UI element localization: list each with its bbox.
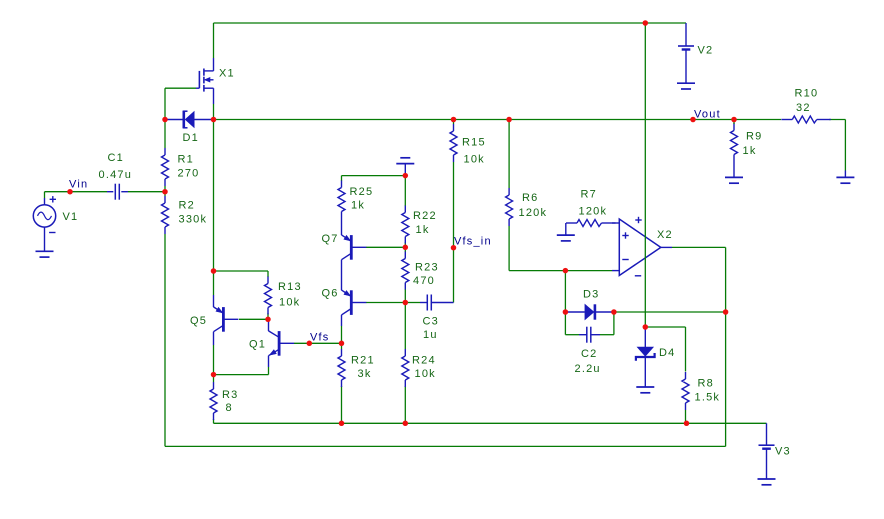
svg-text:C2: C2 (581, 348, 597, 360)
svg-text:R21: R21 (351, 355, 375, 367)
svg-text:R8: R8 (698, 378, 714, 390)
svg-text:R13: R13 (278, 281, 302, 293)
svg-text:1k: 1k (743, 145, 757, 157)
svg-text:Q5: Q5 (190, 315, 207, 327)
svg-text:D1: D1 (183, 132, 199, 144)
svg-text:Vin: Vin (69, 179, 88, 191)
svg-text:R7: R7 (581, 189, 597, 201)
svg-text:X1: X1 (219, 68, 235, 80)
svg-text:470: 470 (413, 275, 435, 287)
svg-text:10k: 10k (415, 368, 436, 380)
svg-text:Vout: Vout (694, 109, 721, 121)
svg-text:V1: V1 (63, 211, 79, 223)
svg-text:V3: V3 (775, 446, 791, 458)
svg-text:0.47u: 0.47u (99, 169, 133, 181)
svg-text:R1: R1 (178, 154, 194, 166)
svg-text:R2: R2 (179, 200, 195, 212)
svg-text:V2: V2 (698, 45, 714, 57)
svg-text:2.2u: 2.2u (575, 363, 601, 375)
svg-text:10k: 10k (279, 297, 300, 309)
svg-text:R3: R3 (222, 389, 238, 401)
svg-text:Q7: Q7 (322, 233, 339, 245)
svg-text:Q1: Q1 (249, 339, 266, 351)
svg-text:32: 32 (796, 102, 811, 114)
svg-text:R9: R9 (746, 131, 762, 143)
svg-text:1k: 1k (351, 200, 365, 212)
svg-text:X2: X2 (657, 229, 673, 241)
svg-text:270: 270 (178, 168, 200, 180)
svg-text:120k: 120k (579, 206, 608, 218)
svg-text:R10: R10 (795, 88, 819, 100)
svg-text:120k: 120k (519, 207, 548, 219)
svg-text:1.5k: 1.5k (695, 392, 721, 404)
svg-text:R25: R25 (350, 186, 374, 198)
svg-text:1u: 1u (423, 329, 438, 341)
svg-text:C3: C3 (423, 316, 439, 328)
svg-text:330k: 330k (179, 214, 208, 226)
svg-text:D4: D4 (659, 347, 675, 359)
svg-text:Vfs: Vfs (310, 332, 330, 344)
svg-text:R24: R24 (412, 355, 436, 367)
svg-text:C1: C1 (108, 152, 124, 164)
svg-text:1k: 1k (416, 224, 430, 236)
svg-text:R23: R23 (415, 262, 439, 274)
svg-text:R22: R22 (413, 210, 437, 222)
svg-text:R6: R6 (522, 192, 538, 204)
svg-text:D3: D3 (583, 289, 599, 301)
svg-text:Q6: Q6 (322, 288, 339, 300)
svg-text:R15: R15 (462, 137, 486, 149)
svg-text:Vfs_in: Vfs_in (454, 236, 492, 248)
svg-text:10k: 10k (464, 154, 485, 166)
svg-text:8: 8 (226, 402, 233, 414)
svg-text:3k: 3k (358, 368, 372, 380)
